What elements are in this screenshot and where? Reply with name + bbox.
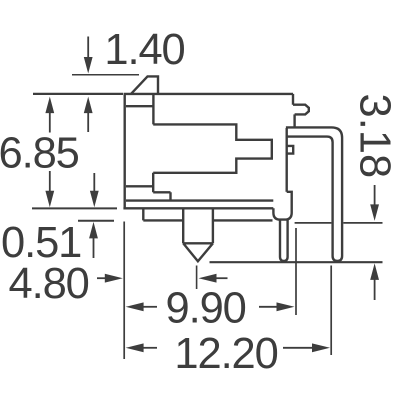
svg-text:6.85: 6.85 [0, 130, 79, 178]
svg-text:1.40: 1.40 [104, 26, 184, 74]
svg-text:4.80: 4.80 [9, 260, 89, 308]
svg-text:12.20: 12.20 [174, 330, 277, 378]
svg-text:3.18: 3.18 [351, 94, 399, 179]
svg-text:9.90: 9.90 [166, 284, 246, 332]
